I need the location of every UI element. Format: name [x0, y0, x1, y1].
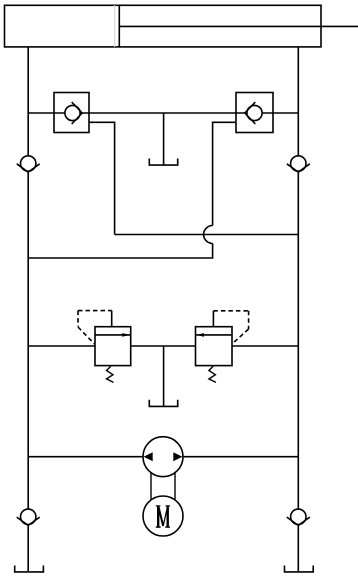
bottom check valve right ball: [291, 509, 306, 524]
wire main line B: [28, 345, 298, 347]
make-up check valve left seat: [17, 164, 40, 172]
pilot-operated check valve CV2 box: [236, 93, 273, 133]
pump P circle: [143, 437, 183, 477]
wire main line A: [28, 112, 298, 114]
relief valve RV1 pilot line: [78, 311, 112, 344]
tank bottom left: [15, 566, 44, 572]
pilot-operated check valve CV1 box: [54, 93, 89, 133]
tank T1: [149, 159, 177, 166]
make-up check valve right ball: [291, 156, 306, 171]
bottom check valve left seat: [17, 517, 40, 525]
make-up check valve right seat: [287, 164, 310, 172]
bottom check valve left ball: [21, 509, 36, 524]
check valve CV1 ball: [65, 105, 80, 120]
relief valve RV2 arrow: [196, 333, 233, 337]
relief valve RV2 spring: [209, 366, 216, 382]
relief valve RV2 pilot line: [213, 311, 248, 344]
pump P flow triangle left: [144, 452, 153, 461]
bottom check valve right seat: [287, 517, 310, 525]
check valve CV2 seat: [245, 102, 256, 124]
relief valve RV2 box: [196, 327, 233, 366]
line hop over H1: [204, 226, 213, 244]
piston: [115, 5, 120, 47]
relief valve RV1 arrow: [95, 333, 131, 337]
piston rod: [119, 25, 358, 27]
pilot line from CV1: [89, 122, 115, 234]
motor letter M: [156, 506, 170, 528]
hydraulic cylinder body: [5, 5, 322, 47]
pump P flow triangle right: [173, 452, 182, 461]
wire left rail: [27, 47, 29, 571]
motor M circle: [143, 496, 183, 536]
tank T2: [149, 400, 177, 407]
tank T2 drop line: [163, 346, 165, 407]
wire cross pilot H1: [115, 234, 299, 236]
check valve CV2 ball: [247, 105, 262, 120]
pilot line continues: [28, 244, 212, 259]
coupling shaft lines: [151, 473, 175, 500]
tank bottom right: [285, 566, 314, 572]
check valve CV1 seat: [72, 102, 83, 124]
wire pump line: [28, 456, 298, 458]
pilot line from CV2: [213, 122, 236, 225]
wire right rail: [297, 47, 299, 571]
relief valve RV1 spring: [107, 366, 114, 382]
relief valve RV1 box: [95, 327, 131, 366]
make-up check valve left ball: [21, 156, 36, 171]
tank T1 drop line: [163, 113, 165, 165]
